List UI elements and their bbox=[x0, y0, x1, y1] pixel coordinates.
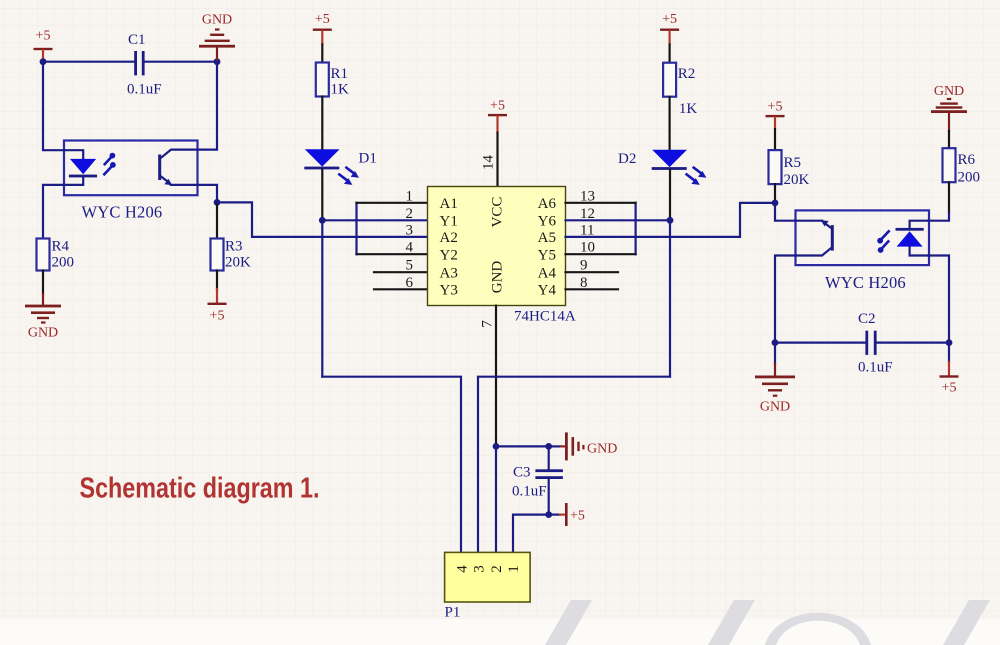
svg-text:WYC H206: WYC H206 bbox=[82, 203, 163, 222]
node R5/A5 bbox=[772, 200, 779, 207]
svg-text:GND: GND bbox=[934, 84, 964, 99]
capacitor C3 bbox=[512, 446, 563, 514]
power +5 below R3 bbox=[208, 303, 227, 324]
svg-text:R3: R3 bbox=[225, 239, 243, 255]
wire to GND sideways bbox=[549, 445, 561, 447]
svg-text:GND: GND bbox=[760, 400, 790, 415]
wire R4 to ground bbox=[42, 271, 44, 295]
svg-text:0.1uF: 0.1uF bbox=[858, 360, 893, 376]
wire bus to pin1 (A1) bbox=[357, 202, 428, 204]
IC U1 74HC14A body bbox=[428, 187, 566, 306]
ground GND above R6 (inverted earth) bbox=[931, 84, 967, 131]
wire +5 to R5 bbox=[774, 129, 776, 150]
wire D2 down to rail bbox=[669, 170, 671, 220]
svg-text:A5: A5 bbox=[538, 230, 556, 246]
opto-left LED bbox=[64, 150, 97, 185]
wire left column down to opto anode bbox=[43, 62, 64, 151]
wire pin12 (Y6) to D2 node bbox=[566, 219, 671, 221]
power +5 below C2 bbox=[940, 375, 959, 395]
wire opto anode (bottom-right) down to C2 rail bbox=[929, 256, 950, 343]
pin numbers right 13-8 bbox=[580, 188, 595, 290]
IC right pin labels bbox=[538, 196, 557, 299]
wire pin11 (A5) to R5 column bbox=[566, 203, 776, 237]
pin 8 stub (Y4) bbox=[566, 288, 619, 290]
svg-text:R2: R2 bbox=[678, 66, 696, 82]
svg-text:1: 1 bbox=[506, 565, 522, 573]
capacitor C2 bbox=[775, 311, 949, 376]
wire right pin bus vertical bbox=[634, 203, 636, 254]
wire R6 to opto cathode (top-right pin) bbox=[948, 182, 950, 213]
power +5 above R5 bbox=[766, 100, 785, 130]
svg-text:+5: +5 bbox=[490, 99, 505, 114]
svg-text:Y6: Y6 bbox=[538, 214, 557, 230]
svg-text:+5: +5 bbox=[768, 100, 783, 115]
wire GND to R6 bbox=[948, 131, 950, 148]
svg-text:R5: R5 bbox=[784, 155, 802, 171]
wire node to IC pin3 (A2) bbox=[217, 202, 428, 237]
ground GND top (inverted earth) bbox=[199, 13, 235, 62]
opto-left light arrows bbox=[104, 153, 116, 175]
svg-text:WYC H206: WYC H206 bbox=[825, 273, 906, 292]
wire left pin bus vertical bbox=[355, 203, 357, 254]
pin numbers left 1-6 bbox=[406, 188, 414, 290]
optocoupler U-left WYC H206 box bbox=[64, 141, 198, 196]
wire opto cathode to R4 bbox=[43, 185, 64, 239]
svg-text:A4: A4 bbox=[538, 265, 557, 281]
svg-text:Y1: Y1 bbox=[440, 214, 458, 230]
ground GND bottom-left (earth) bbox=[25, 305, 61, 341]
svg-text:+5: +5 bbox=[315, 12, 330, 27]
svg-text:20K: 20K bbox=[784, 172, 810, 188]
wire C2 right to +5 bbox=[948, 343, 950, 362]
optocoupler U-right WYC H206 box bbox=[796, 210, 930, 265]
wire D1 node to IC pin2 (Y1) bbox=[322, 219, 427, 221]
node pin7/GND net bbox=[493, 443, 500, 450]
node C3 top bbox=[545, 443, 552, 450]
power +5 above R2 bbox=[660, 12, 679, 44]
power +5 sideways (right of C3) bbox=[565, 503, 585, 526]
wire R5 to node bbox=[774, 184, 776, 203]
LED D1 bbox=[304, 149, 377, 169]
svg-text:D1: D1 bbox=[359, 151, 377, 167]
svg-text:GND: GND bbox=[28, 326, 58, 341]
resistor R6 bbox=[943, 148, 981, 185]
pin 9 stub (A4) bbox=[566, 271, 619, 273]
svg-text:2: 2 bbox=[489, 565, 505, 573]
svg-text:+5: +5 bbox=[210, 309, 225, 324]
wire pin10 (Y5) to bus bbox=[566, 253, 636, 255]
pin 14 wire (VCC) bbox=[496, 133, 498, 187]
svg-text:4: 4 bbox=[406, 240, 414, 256]
svg-text:Schematic diagram 1.: Schematic diagram 1. bbox=[80, 473, 320, 505]
svg-text:5: 5 bbox=[406, 258, 414, 274]
opto-left transistor Q bbox=[158, 150, 197, 186]
svg-text:1: 1 bbox=[406, 188, 414, 204]
svg-text:3: 3 bbox=[472, 565, 488, 573]
svg-text:C1: C1 bbox=[128, 32, 146, 48]
opto-right light arrows bbox=[877, 231, 889, 253]
svg-text:+5: +5 bbox=[942, 381, 957, 396]
svg-text:74HC14A: 74HC14A bbox=[514, 309, 576, 325]
P1 pin numbers (rotated) bbox=[455, 565, 523, 573]
ground GND sideways (right of C3) bbox=[565, 432, 617, 460]
svg-text:R1: R1 bbox=[331, 66, 349, 82]
pin 5 stub (A3) bbox=[374, 271, 428, 273]
svg-text:+5: +5 bbox=[662, 12, 677, 27]
wire top rail left bbox=[43, 61, 135, 63]
node right of C1 bbox=[214, 58, 221, 65]
ground GND below C2 (earth) bbox=[755, 376, 795, 415]
resistor R3 bbox=[211, 239, 252, 271]
svg-text:GND: GND bbox=[202, 13, 232, 28]
svg-text:+5: +5 bbox=[570, 509, 585, 524]
power +5 above IC pin14 bbox=[488, 99, 507, 133]
svg-text:1K: 1K bbox=[679, 101, 698, 117]
svg-text:VCC: VCC bbox=[490, 197, 506, 228]
svg-text:6: 6 bbox=[406, 275, 414, 291]
wire opto collector (bottom-left) down to C2 rail bbox=[775, 256, 796, 343]
svg-text:0.1uF: 0.1uF bbox=[127, 82, 162, 98]
svg-text:Y2: Y2 bbox=[440, 247, 458, 263]
svg-text:Y5: Y5 bbox=[538, 247, 556, 263]
wire left rail to P1 pin4 bbox=[322, 377, 461, 553]
wire +5 to R2 bbox=[668, 44, 670, 62]
wire D1 down to rail bbox=[321, 169, 323, 220]
svg-text:+5: +5 bbox=[36, 29, 51, 44]
LED D2 bbox=[618, 150, 687, 170]
svg-text:2: 2 bbox=[406, 206, 414, 222]
svg-text:A1: A1 bbox=[440, 196, 458, 212]
svg-text:C2: C2 bbox=[858, 311, 876, 327]
svg-text:Y4: Y4 bbox=[538, 283, 557, 299]
svg-text:Y3: Y3 bbox=[440, 283, 458, 299]
watermark swoosh bottom right bbox=[545, 600, 990, 645]
IC left pin labels bbox=[440, 196, 458, 299]
wire GND net horizontal bbox=[496, 445, 549, 447]
svg-text:4: 4 bbox=[455, 565, 471, 573]
svg-text:3: 3 bbox=[406, 222, 414, 238]
D2 light arrows bbox=[687, 168, 707, 185]
D1 light arrows bbox=[339, 168, 359, 185]
node D1/pin2 bbox=[319, 217, 326, 224]
pin 7 wire (GND) bbox=[495, 306, 497, 447]
svg-text:7: 7 bbox=[480, 320, 496, 328]
svg-text:GND: GND bbox=[587, 442, 617, 457]
svg-text:200: 200 bbox=[52, 255, 75, 271]
svg-text:1K: 1K bbox=[331, 82, 350, 98]
wire pin7 down to P1 pin2 bbox=[495, 446, 497, 552]
wire top rail right of C1 bbox=[145, 61, 217, 63]
resistor R1 bbox=[316, 63, 349, 98]
connector P1 body bbox=[445, 552, 530, 602]
wire right rail to P1 pin3 bbox=[478, 377, 670, 553]
svg-text:A6: A6 bbox=[538, 196, 557, 212]
svg-text:0.1uF: 0.1uF bbox=[512, 484, 547, 500]
wire node to opto emitter (top-left pin) bbox=[775, 203, 796, 221]
svg-text:P1: P1 bbox=[445, 605, 461, 621]
wire node to R3 bbox=[216, 202, 218, 238]
wire right column down to opto collector bbox=[198, 62, 218, 150]
wire R2 to D2 bbox=[668, 97, 670, 150]
resistor R4 bbox=[37, 239, 75, 271]
node left of C1 bbox=[40, 58, 47, 65]
node C2 right bbox=[946, 339, 953, 346]
node C3 bottom bbox=[545, 511, 552, 518]
wire +5 to R1 bbox=[321, 44, 323, 62]
opto-right transistor Q (mirrored) bbox=[796, 220, 834, 255]
wire C3 bottom to P1 pin1 bbox=[513, 515, 549, 553]
node C2 left bbox=[772, 339, 779, 346]
svg-text:R4: R4 bbox=[52, 239, 70, 255]
svg-text:200: 200 bbox=[958, 170, 981, 186]
wire to +5 sideways bbox=[549, 513, 560, 515]
capacitor C1 bbox=[127, 32, 162, 98]
pin 6 stub (Y3) bbox=[374, 288, 428, 290]
wire opto emitter to node bbox=[198, 185, 218, 203]
node emitter/R3 bbox=[214, 199, 221, 206]
svg-text:A3: A3 bbox=[440, 265, 458, 281]
resistor R5 bbox=[769, 150, 810, 188]
svg-text:20K: 20K bbox=[225, 255, 251, 271]
svg-text:R6: R6 bbox=[958, 152, 976, 168]
wire R3 to +5 bbox=[216, 271, 218, 290]
svg-text:A2: A2 bbox=[440, 230, 458, 246]
wire pin13 (A6) to bus bbox=[566, 202, 636, 204]
opto-right LED (points up) bbox=[896, 221, 929, 256]
power +5 top-left bbox=[34, 29, 53, 62]
power +5 above R1 bbox=[313, 12, 332, 44]
wire bus to pin4 (Y2) bbox=[357, 253, 428, 255]
node D2/pin12 bbox=[667, 217, 674, 224]
wire R1 to D1 bbox=[321, 97, 323, 150]
svg-text:C3: C3 bbox=[513, 465, 531, 481]
resistor R2 bbox=[663, 63, 697, 117]
wire C2 left to GND bbox=[774, 343, 776, 364]
svg-text:GND: GND bbox=[490, 261, 506, 294]
svg-text:D2: D2 bbox=[618, 151, 636, 167]
svg-text:14: 14 bbox=[481, 155, 497, 171]
